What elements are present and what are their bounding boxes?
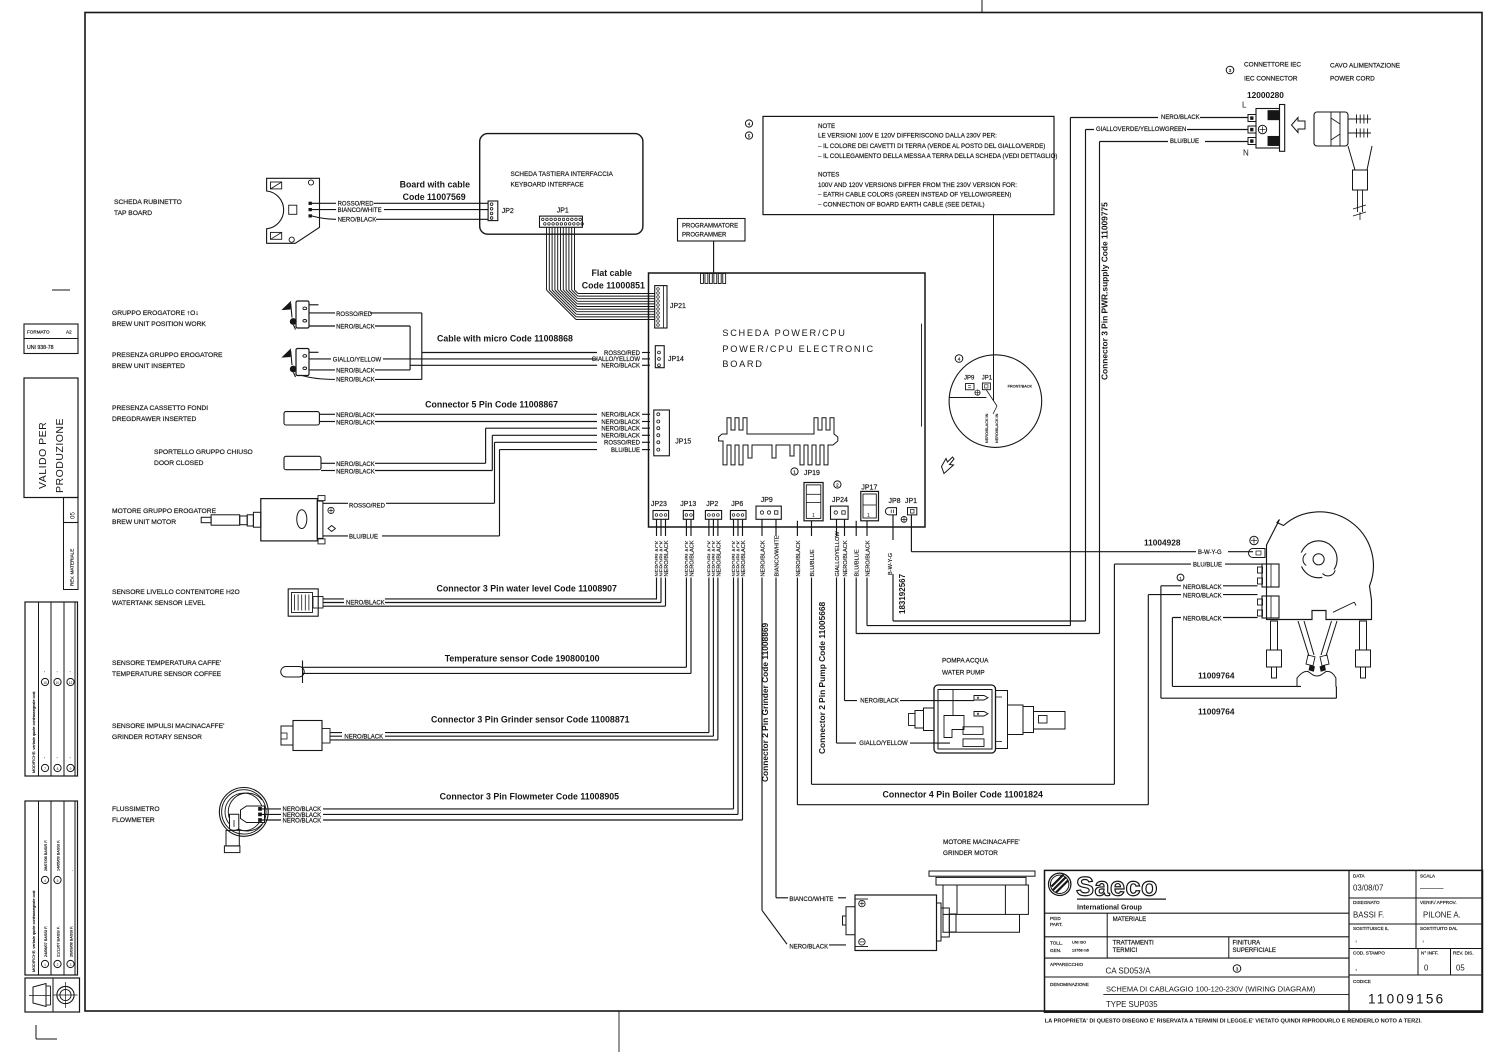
svg-text:JP24: JP24 bbox=[832, 497, 848, 504]
svg-text:NERO/BLACK: NERO/BLACK bbox=[664, 540, 670, 576]
svg-text:NERO/BLACK: NERO/BLACK bbox=[1183, 617, 1222, 623]
svg-text:SCHEMA DI CABLAGGIO 100-120-23: SCHEMA DI CABLAGGIO 100-120-230V (WIRING… bbox=[1106, 985, 1316, 994]
svg-text:BIANCO/WHITE: BIANCO/WHITE bbox=[338, 208, 382, 214]
svg-text:Connector 2 Pin Pump Code 110: Connector 2 Pin Pump Code 11005668 bbox=[817, 601, 827, 754]
svg-text:BREW UNIT INSERTED: BREW UNIT INSERTED bbox=[112, 363, 185, 370]
svg-text:24/08/07 BASSI F.: 24/08/07 BASSI F. bbox=[44, 926, 48, 957]
svg-text:B-W-Y-G: B-W-Y-G bbox=[888, 553, 894, 575]
svg-text:,: , bbox=[1422, 935, 1424, 944]
svg-text:Connector 4 Pin Boiler Code 1: Connector 4 Pin Boiler Code 11001824 bbox=[883, 790, 1043, 800]
svg-text:SCHEDA TASTIERA INTERFACCIA: SCHEDA TASTIERA INTERFACCIA bbox=[511, 171, 614, 178]
svg-text:GRUPPO EROGATORE ↑O↓: GRUPPO EROGATORE ↑O↓ bbox=[112, 310, 199, 317]
svg-text:15: 15 bbox=[43, 681, 47, 685]
svg-text:POWER/CPU ELECTRONIC: POWER/CPU ELECTRONIC bbox=[722, 344, 874, 354]
svg-text:JP14: JP14 bbox=[668, 356, 684, 363]
svg-text:.: . bbox=[44, 754, 45, 759]
svg-text:GIALLOVERDE/YELLOWGREEN: GIALLOVERDE/YELLOWGREEN bbox=[1096, 127, 1186, 133]
svg-text:FINITURA: FINITURA bbox=[1233, 941, 1261, 947]
svg-text:BLU/BLUE: BLU/BLUE bbox=[1170, 139, 1199, 145]
svg-text:NERO/BLACK: NERO/BLACK bbox=[1183, 594, 1222, 600]
svg-text:APPARECCHIO: APPARECCHIO bbox=[1050, 962, 1084, 967]
svg-text:PRODUZIONE: PRODUZIONE bbox=[54, 418, 66, 493]
svg-text:NERO/BLACK: NERO/BLACK bbox=[346, 601, 385, 607]
svg-text:1: 1 bbox=[812, 513, 815, 519]
svg-text:BASSI F.: BASSI F. bbox=[1353, 911, 1384, 920]
svg-text:Connector 2 Pin Grinder Code: Connector 2 Pin Grinder Code 11008869 bbox=[760, 622, 770, 782]
svg-text:SCHEDA RUBINETTO: SCHEDA RUBINETTO bbox=[114, 199, 182, 206]
svg-text:7: 7 bbox=[44, 767, 46, 771]
svg-text:1: 1 bbox=[867, 513, 870, 519]
svg-text:NERO/BLACK: NERO/BLACK bbox=[716, 540, 722, 576]
svg-text:FRONT/BACK: FRONT/BACK bbox=[1008, 385, 1033, 389]
svg-text:SPORTELLO GRUPPO CHIUSO: SPORTELLO GRUPPO CHIUSO bbox=[154, 449, 253, 456]
svg-text:Connector 3 Pin water level C: Connector 3 Pin water level Code 1100890… bbox=[437, 584, 618, 594]
svg-text:REV. DIS.: REV. DIS. bbox=[1453, 951, 1474, 956]
svg-text:———: ——— bbox=[1420, 884, 1444, 893]
svg-text:9: 9 bbox=[70, 767, 72, 771]
svg-text:Connector 5 Pin Code 11008867: Connector 5 Pin Code 11008867 bbox=[425, 399, 558, 409]
svg-text:BREW UNIT MOTOR: BREW UNIT MOTOR bbox=[112, 519, 176, 526]
svg-text:12: 12 bbox=[69, 681, 73, 685]
svg-text:4: 4 bbox=[958, 356, 961, 361]
svg-text:NERO/BLACK: NERO/BLACK bbox=[601, 434, 640, 440]
svg-text:NERO/BLACK: NERO/BLACK bbox=[336, 420, 375, 426]
svg-text:POMPA ACQUA: POMPA ACQUA bbox=[942, 658, 989, 665]
svg-text:SOSTITUITO DAL: SOSTITUITO DAL bbox=[1420, 926, 1458, 931]
svg-text:DOOR CLOSED: DOOR CLOSED bbox=[154, 460, 204, 467]
svg-text:NOTE: NOTE bbox=[818, 123, 835, 130]
svg-text:NERO/BLACK: NERO/BLACK bbox=[344, 734, 383, 740]
svg-text:TYPE SUP035: TYPE SUP035 bbox=[1106, 1000, 1158, 1009]
svg-text:International Group: International Group bbox=[1077, 905, 1142, 912]
svg-text:.: . bbox=[70, 754, 71, 759]
svg-text:5: 5 bbox=[748, 133, 751, 138]
svg-text:11009764: 11009764 bbox=[1198, 671, 1235, 681]
svg-text:Board with cable: Board with cable bbox=[400, 180, 470, 190]
svg-text:05: 05 bbox=[70, 512, 77, 519]
svg-text:GIALLO/YELLOW: GIALLO/YELLOW bbox=[592, 357, 641, 363]
svg-text:JP15: JP15 bbox=[675, 439, 691, 446]
svg-text:5: 5 bbox=[57, 879, 59, 883]
svg-text:MODIFICHE: verbale quote contr: MODIFICHE: verbale quote contrassegnate … bbox=[32, 890, 36, 972]
svg-text:LE VERSIONI 100V E 120V DIFFER: LE VERSIONI 100V E 120V DIFFERISCONO DAL… bbox=[818, 133, 997, 140]
svg-text:NERO/BLACK: NERO/BLACK bbox=[283, 819, 322, 825]
svg-text:Connector 3 Pin Flowmeter Cod: Connector 3 Pin Flowmeter Code 11008905 bbox=[440, 792, 620, 802]
svg-text:TERMICI: TERMICI bbox=[1113, 948, 1138, 954]
svg-text:8: 8 bbox=[57, 767, 59, 771]
svg-text:4: 4 bbox=[748, 121, 751, 126]
svg-text:BIANCO/WHITE: BIANCO/WHITE bbox=[789, 897, 833, 903]
svg-text:NERO/BLACK IN: NERO/BLACK IN bbox=[985, 413, 989, 443]
svg-text:TEMPERATURE SENSOR COFFEE: TEMPERATURE SENSOR COFFEE bbox=[112, 671, 222, 678]
svg-text:NERO/BLACK: NERO/BLACK bbox=[796, 540, 802, 576]
svg-text:BIANCO/WHITE: BIANCO/WHITE bbox=[774, 535, 780, 576]
svg-text:,: , bbox=[1355, 935, 1357, 944]
svg-text:Flat cable: Flat cable bbox=[592, 268, 633, 278]
svg-text:BLU/BLUE: BLU/BLUE bbox=[810, 549, 816, 576]
svg-text:ROSSO/RED: ROSSO/RED bbox=[349, 503, 386, 509]
svg-text:NERO/BLACK: NERO/BLACK bbox=[601, 427, 640, 433]
svg-text:JP2: JP2 bbox=[706, 501, 718, 508]
svg-text:Connector 3 Pin PWR.supply Co: Connector 3 Pin PWR.supply Code 11009775 bbox=[1100, 202, 1110, 380]
svg-text:MODIFICHE: verbale quote contr: MODIFICHE: verbale quote contrassegnate … bbox=[32, 691, 36, 773]
svg-text:IEC CONNECTOR: IEC CONNECTOR bbox=[1244, 76, 1298, 83]
svg-text:DENOMINAZIONE: DENOMINAZIONE bbox=[1050, 982, 1089, 987]
svg-text:CA SD053/A: CA SD053/A bbox=[1106, 967, 1152, 976]
svg-text:SCHEDA POWER/CPU: SCHEDA POWER/CPU bbox=[722, 328, 846, 338]
svg-text:NERO/BLACK: NERO/BLACK bbox=[741, 540, 747, 576]
svg-text:JP23: JP23 bbox=[651, 501, 667, 508]
svg-text:GEN.: GEN. bbox=[1050, 948, 1061, 953]
svg-text:NERO/BLACK: NERO/BLACK bbox=[760, 540, 766, 576]
svg-text:4: 4 bbox=[44, 879, 46, 883]
svg-text:COD. STAMPO: COD. STAMPO bbox=[1353, 951, 1385, 956]
svg-text:WATERTANK SENSOR LEVEL: WATERTANK SENSOR LEVEL bbox=[112, 600, 206, 607]
svg-text:B-W-Y-G: B-W-Y-G bbox=[1198, 550, 1222, 556]
svg-text:12000280: 12000280 bbox=[1247, 90, 1284, 100]
svg-text:SUPERFICIALE: SUPERFICIALE bbox=[1233, 948, 1276, 954]
svg-text:.: . bbox=[44, 668, 45, 673]
svg-text:– IL COLLEGAMENTO DELLA MESSA: – IL COLLEGAMENTO DELLA MESSA A TERRA DE… bbox=[818, 153, 1057, 160]
svg-text:10: 10 bbox=[56, 681, 60, 685]
svg-text:NOTES: NOTES bbox=[818, 172, 839, 179]
svg-text:CONNETTORE IEC: CONNETTORE IEC bbox=[1244, 62, 1301, 69]
svg-text:JP13: JP13 bbox=[680, 501, 696, 508]
svg-text:GIALLO/YELLOW: GIALLO/YELLOW bbox=[333, 358, 382, 364]
svg-text:.: . bbox=[57, 668, 58, 673]
svg-text:DISEGNATO: DISEGNATO bbox=[1353, 900, 1380, 905]
svg-text:28/07/08 BASIR F.: 28/07/08 BASIR F. bbox=[44, 840, 48, 871]
svg-text:N° INFF.: N° INFF. bbox=[1421, 951, 1438, 956]
svg-text:2: 2 bbox=[57, 963, 59, 967]
svg-text:NERO/BLACK IN: NERO/BLACK IN bbox=[995, 413, 999, 443]
svg-text:ROSSO/RED: ROSSO/RED bbox=[604, 351, 641, 357]
svg-text:JP9: JP9 bbox=[964, 376, 975, 382]
svg-text:21/11/07 BASSI F.: 21/11/07 BASSI F. bbox=[56, 926, 60, 957]
svg-text:JP21: JP21 bbox=[670, 303, 686, 310]
svg-text:100V AND 120V VERSIONS DIFFER: 100V AND 120V VERSIONS DIFFER FROM THE 2… bbox=[818, 182, 1017, 189]
svg-text:PROGRAMMER: PROGRAMMER bbox=[682, 233, 727, 239]
svg-text:SENSORE LIVELLO CONTENITORE H2: SENSORE LIVELLO CONTENITORE H2O bbox=[112, 589, 240, 596]
svg-text:VERIF./ APPROV.: VERIF./ APPROV. bbox=[1420, 900, 1457, 905]
svg-text:3: 3 bbox=[1229, 68, 1232, 73]
svg-text:NERO/BLACK: NERO/BLACK bbox=[865, 540, 871, 576]
svg-text:SCALA: SCALA bbox=[1420, 874, 1436, 879]
svg-text:ROSSO/RED: ROSSO/RED bbox=[338, 202, 375, 208]
svg-text:PRESENZA GRUPPO EROGATORE: PRESENZA GRUPPO EROGATORE bbox=[112, 352, 223, 359]
svg-text:BOARD: BOARD bbox=[722, 359, 763, 369]
svg-text:SENSORE IMPULSI MACINACAFFE': SENSORE IMPULSI MACINACAFFE' bbox=[112, 723, 224, 730]
svg-text:NERO/BLACK: NERO/BLACK bbox=[601, 364, 640, 370]
svg-text:DREGDRAWER INSERTED: DREGDRAWER INSERTED bbox=[112, 416, 197, 423]
svg-text:05: 05 bbox=[1456, 964, 1465, 973]
svg-text:FLUSSIMETRO: FLUSSIMETRO bbox=[112, 806, 160, 813]
svg-text:POWER CORD: POWER CORD bbox=[1330, 76, 1375, 83]
svg-text:Cable with micro Code 1100886: Cable with micro Code 11008868 bbox=[437, 334, 573, 344]
svg-text:NERO/BLACK: NERO/BLACK bbox=[336, 462, 375, 468]
svg-text:Code 11000851: Code 11000851 bbox=[582, 281, 645, 291]
svg-text:ROSSO/RED: ROSSO/RED bbox=[604, 441, 641, 447]
svg-text:JP19: JP19 bbox=[804, 470, 820, 477]
svg-text:FORMATO: FORMATO bbox=[27, 330, 50, 335]
svg-text:.: . bbox=[69, 870, 73, 871]
svg-text:BREW UNIT POSITION WORK: BREW UNIT POSITION WORK bbox=[112, 321, 206, 328]
svg-text:JP1: JP1 bbox=[557, 208, 569, 215]
svg-text:PEID: PEID bbox=[1050, 916, 1061, 921]
svg-text:11009764: 11009764 bbox=[1198, 707, 1235, 717]
svg-text:NERO/BLACK: NERO/BLACK bbox=[601, 413, 640, 419]
svg-text:1: 1 bbox=[44, 963, 46, 967]
svg-text:11009156: 11009156 bbox=[1368, 992, 1445, 1007]
svg-text:JP6: JP6 bbox=[731, 501, 743, 508]
svg-text:TRATTAMENTI: TRATTAMENTI bbox=[1113, 941, 1154, 947]
svg-text:NERO/BLACK: NERO/BLACK bbox=[1183, 585, 1222, 591]
svg-text:BLU/BLUE: BLU/BLUE bbox=[855, 549, 861, 576]
svg-text:NERO/BLACK: NERO/BLACK bbox=[860, 698, 899, 704]
svg-text:NERO/BLACK: NERO/BLACK bbox=[843, 540, 849, 576]
svg-text:SOSTITUISCE IL: SOSTITUISCE IL bbox=[1353, 926, 1389, 931]
svg-text:GRINDER ROTARY SENSOR: GRINDER ROTARY SENSOR bbox=[112, 734, 202, 741]
svg-text:3: 3 bbox=[70, 963, 72, 967]
svg-text:FLOWMETER: FLOWMETER bbox=[112, 817, 155, 824]
svg-text:0: 0 bbox=[1424, 964, 1429, 973]
svg-text:PART.: PART. bbox=[1050, 922, 1063, 927]
svg-text:TOLL.: TOLL. bbox=[1050, 941, 1063, 946]
svg-text:REV. MATERIALE: REV. MATERIALE bbox=[70, 549, 75, 586]
svg-text:.: . bbox=[57, 754, 58, 759]
svg-text:CODICE: CODICE bbox=[1353, 979, 1371, 984]
svg-text:1: 1 bbox=[1179, 576, 1181, 580]
svg-text:183192567: 183192567 bbox=[898, 573, 907, 614]
svg-text:11004928: 11004928 bbox=[1144, 538, 1181, 548]
svg-text:DATA: DATA bbox=[1353, 874, 1366, 879]
svg-text:– CONNECTION OF BOARD EARTH CA: – CONNECTION OF BOARD EARTH CABLE (SEE D… bbox=[818, 201, 985, 208]
svg-text:JP1: JP1 bbox=[982, 376, 993, 382]
svg-text:UNI ISO: UNI ISO bbox=[1072, 941, 1086, 945]
svg-text:JP8: JP8 bbox=[889, 498, 901, 505]
svg-text:BLU/BLUE: BLU/BLUE bbox=[1193, 563, 1222, 569]
svg-text:TAP BOARD: TAP BOARD bbox=[114, 210, 152, 217]
svg-text:PILONE A.: PILONE A. bbox=[1423, 911, 1461, 920]
svg-text:PROGRAMMATORE: PROGRAMMATORE bbox=[682, 224, 738, 230]
svg-text:20/03/08 BASSI F.: 20/03/08 BASSI F. bbox=[69, 926, 73, 957]
svg-text:NERO/BLACK: NERO/BLACK bbox=[336, 369, 375, 375]
svg-text:ROSSO/RED: ROSSO/RED bbox=[336, 312, 373, 318]
svg-text:N: N bbox=[1243, 149, 1249, 158]
svg-text:MOTORE MACINACAFFE': MOTORE MACINACAFFE' bbox=[943, 839, 1020, 846]
svg-text:BLU/BLUE: BLU/BLUE bbox=[611, 448, 640, 454]
svg-text:,: , bbox=[1355, 963, 1357, 972]
svg-text:GIALLO/YELLOW: GIALLO/YELLOW bbox=[835, 531, 841, 577]
svg-text:LA PROPRIETA' DI QUESTO DISEGN: LA PROPRIETA' DI QUESTO DISEGNO E' RISER… bbox=[1045, 1019, 1423, 1025]
svg-text:SENSORE TEMPERATURA CAFFE': SENSORE TEMPERATURA CAFFE' bbox=[112, 660, 221, 667]
svg-text:2: 2 bbox=[836, 482, 839, 487]
svg-text:13768 m6: 13768 m6 bbox=[1072, 949, 1089, 953]
svg-text:.: . bbox=[70, 668, 71, 673]
svg-text:VALIDO PER: VALIDO PER bbox=[37, 422, 49, 489]
svg-text:Temperature sensor Code 19080: Temperature sensor Code 190800100 bbox=[445, 654, 600, 664]
svg-text:NERO/BLACK: NERO/BLACK bbox=[601, 420, 640, 426]
svg-text:A2: A2 bbox=[66, 330, 72, 335]
svg-text:MATERIALE: MATERIALE bbox=[1113, 917, 1147, 923]
svg-text:NERO/BLACK: NERO/BLACK bbox=[789, 944, 828, 950]
svg-text:3: 3 bbox=[1236, 966, 1239, 971]
svg-text:UNI 938-78: UNI 938-78 bbox=[27, 345, 54, 351]
svg-text:NERO/BLACK: NERO/BLACK bbox=[1161, 115, 1200, 121]
svg-text:JP2: JP2 bbox=[502, 208, 514, 215]
svg-text:NERO/BLACK: NERO/BLACK bbox=[689, 540, 695, 576]
svg-text:NERO/BLACK: NERO/BLACK bbox=[338, 218, 377, 224]
svg-text:03/08/07: 03/08/07 bbox=[1353, 884, 1383, 893]
svg-text:– IL COLORE DEI CAVETTI DI TER: – IL COLORE DEI CAVETTI DI TERRA (VERDE … bbox=[818, 143, 1045, 150]
svg-text:JP17: JP17 bbox=[861, 485, 877, 492]
svg-text:KEYBOARD INTERFACE: KEYBOARD INTERFACE bbox=[511, 182, 584, 189]
svg-text:GIALLO/YELLOW: GIALLO/YELLOW bbox=[859, 741, 908, 747]
svg-text:NERO/BLACK: NERO/BLACK bbox=[336, 324, 375, 330]
svg-text:GRINDER MOTOR: GRINDER MOTOR bbox=[943, 850, 998, 857]
svg-text:1: 1 bbox=[793, 469, 796, 474]
svg-text:NERO/BLACK: NERO/BLACK bbox=[336, 413, 375, 419]
svg-text:– EATRH CABLE COLORS (GREEN IN: – EATRH CABLE COLORS (GREEN INSTEAD OF Y… bbox=[818, 192, 1011, 199]
svg-text:WATER PUMP: WATER PUMP bbox=[942, 670, 985, 677]
svg-text:14/05/09 BASSI F.: 14/05/09 BASSI F. bbox=[56, 840, 60, 871]
svg-text:CAVO ALIMENTAZIONE: CAVO ALIMENTAZIONE bbox=[1330, 63, 1400, 70]
svg-text:JP9: JP9 bbox=[761, 497, 773, 504]
svg-text:Saeco: Saeco bbox=[1076, 872, 1158, 902]
svg-text:BLU/BLUE: BLU/BLUE bbox=[349, 535, 378, 541]
svg-text:Code 11007569: Code 11007569 bbox=[403, 192, 466, 202]
svg-text:Connector 3 Pin Grinder sensor: Connector 3 Pin Grinder sensor Code 1100… bbox=[431, 715, 630, 725]
svg-text:L: L bbox=[1242, 101, 1247, 110]
svg-text:NERO/BLACK: NERO/BLACK bbox=[336, 470, 375, 476]
svg-text:JP1: JP1 bbox=[905, 498, 917, 505]
svg-text:PRESENZA CASSETTO FONDI: PRESENZA CASSETTO FONDI bbox=[112, 405, 208, 412]
svg-text:NERO/BLACK: NERO/BLACK bbox=[336, 378, 375, 384]
svg-text:MOTORE GRUPPO EROGATORE: MOTORE GRUPPO EROGATORE bbox=[112, 508, 217, 515]
